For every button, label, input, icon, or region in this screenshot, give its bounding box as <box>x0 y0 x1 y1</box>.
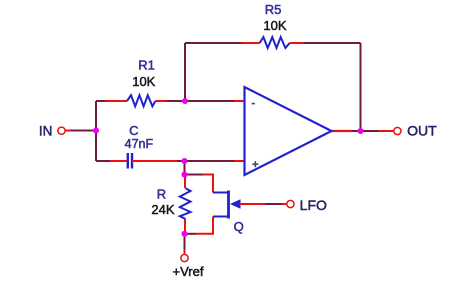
svg-text:LFO: LFO <box>300 197 327 213</box>
node: R/Q bottom junction <box>181 231 187 237</box>
svg-text:10K: 10K <box>263 18 286 33</box>
svg-text:10K: 10K <box>132 74 155 89</box>
resistor R1 <box>127 95 155 106</box>
wire: bottom branch to JFET source <box>185 217 214 234</box>
svg-text:OUT: OUT <box>407 123 437 139</box>
wire: feedback top row to R5 <box>185 42 260 44</box>
svg-text:Q: Q <box>234 219 244 234</box>
wire: bottom node down to +Vref terminal <box>184 234 186 254</box>
node: R/Q top junction <box>181 171 187 177</box>
wire: gate to LFO terminal <box>240 203 287 205</box>
wire: IN terminal to input node <box>66 130 97 132</box>
svg-text:+Vref: +Vref <box>173 264 204 279</box>
op-amp U1 <box>245 87 332 175</box>
wire: output node to OUT terminal <box>332 130 394 132</box>
svg-text:47nF: 47nF <box>125 137 154 151</box>
wire: capacitor to non-inverting node <box>132 160 185 162</box>
node: non-inverting input junction <box>181 158 187 164</box>
node: IN junction <box>93 127 99 133</box>
wire: input node vertical (node A) <box>95 101 97 161</box>
resistor R <box>180 188 191 219</box>
transistor Q gate arrow <box>230 199 241 208</box>
capacitor C <box>128 153 132 169</box>
node: output junction <box>357 128 363 134</box>
wire: R bottom lead <box>184 219 186 234</box>
terminal: OUT <box>394 127 401 134</box>
wire: feedback vertical down to output node <box>360 43 362 131</box>
terminal: +Vref <box>181 254 188 261</box>
terminal: LFO <box>287 200 294 207</box>
svg-text:R: R <box>157 187 166 202</box>
wire: inverting node to op-amp minus pin <box>185 100 245 102</box>
transistor Q (JFET) <box>213 191 229 219</box>
resistor R5 <box>260 37 290 48</box>
svg-text:IN: IN <box>39 124 53 139</box>
svg-text:C: C <box>129 123 138 138</box>
wire: short vertical between C node and R top node <box>184 161 186 175</box>
terminal: IN <box>58 127 65 134</box>
wire: R top lead <box>184 175 186 189</box>
wire: R5 to output corner <box>290 42 361 44</box>
op-amp plus sign <box>252 161 258 167</box>
node: inverting input junction <box>182 98 188 104</box>
svg-text:24K: 24K <box>151 202 174 217</box>
svg-text:R1: R1 <box>138 58 155 73</box>
op-amp minus sign <box>252 103 255 105</box>
wire: R1 row left segment <box>96 100 127 102</box>
svg-text:R5: R5 <box>265 2 282 17</box>
wire: feedback vertical up from node <box>184 43 186 101</box>
wire: R1 to inverting input node <box>155 100 185 102</box>
wire: top branch to JFET drain <box>185 175 214 193</box>
wire: non-inverting node to op-amp plus pin <box>185 160 245 162</box>
wire: C row from input corner to capacitor <box>96 160 128 162</box>
